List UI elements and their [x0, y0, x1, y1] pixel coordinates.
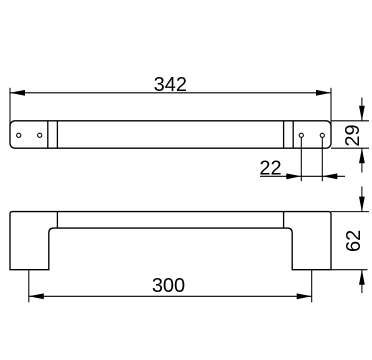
dim 62: top extension line — [331, 211, 369, 213]
front view: left division line — [56, 212, 58, 229]
dim 300: left extension line — [28, 270, 30, 303]
dim 300: right arrowhead — [297, 293, 312, 299]
dim 22: left extension line from hole — [300, 138, 302, 182]
top view: left cap inner edge — [47, 121, 49, 148]
hole left-cap A — [17, 133, 21, 137]
dim 62: upper arrowhead — [359, 197, 365, 212]
dim 29: bottom extension line — [331, 147, 369, 149]
dim 29: top extension line — [331, 120, 369, 122]
dim 342: left arrowhead — [10, 90, 25, 96]
svg-text:300: 300 — [152, 275, 185, 297]
hole left-cap B — [38, 133, 42, 137]
dim 342: left extension line — [9, 88, 11, 126]
dim 22: right extension line from hole — [321, 138, 323, 182]
dim 300: dimension line — [29, 295, 312, 297]
dim 62: upper dimension line segment — [361, 187, 363, 212]
dim 342: right arrowhead — [316, 90, 331, 96]
dim 300: left arrowhead — [29, 293, 44, 299]
dim 29: lower arrowhead — [359, 148, 365, 163]
dim 342: right extension line — [330, 88, 332, 126]
dim 62: lower dimension line segment — [361, 270, 363, 293]
svg-text:62: 62 — [343, 230, 365, 252]
hole right-cap B — [320, 133, 324, 137]
top view: right cap inner edge — [292, 121, 294, 148]
svg-text:29: 29 — [342, 124, 364, 146]
dim 62: bottom extension line — [331, 269, 368, 271]
dim 29: upper dimension line segment — [361, 98, 363, 121]
dim 62: lower arrowhead — [359, 270, 365, 285]
top view: bar outline — [10, 121, 331, 148]
dim 22: dimension line — [260, 175, 345, 177]
svg-text:342: 342 — [154, 74, 187, 96]
dim 300: right extension line — [311, 270, 313, 303]
top view: left neck line — [56, 121, 58, 148]
dim 29: lower dimension line segment — [361, 148, 363, 172]
dim 22: right arrowhead — [322, 173, 337, 179]
front view: handle outline — [10, 212, 331, 270]
front view: right division line — [283, 212, 285, 229]
top view: right neck line — [283, 121, 285, 148]
dim 22: left arrowhead — [286, 173, 301, 179]
hole right-cap A — [299, 133, 303, 137]
dim 29: upper arrowhead — [359, 106, 365, 121]
svg-text:22: 22 — [259, 158, 281, 180]
dim 342: dimension line — [10, 92, 331, 94]
